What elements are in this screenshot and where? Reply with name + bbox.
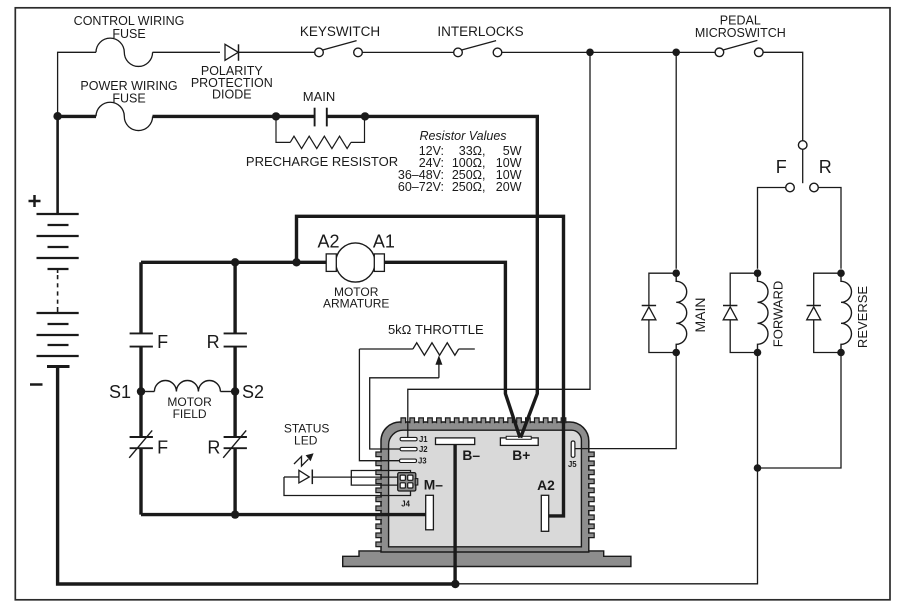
label R reverse contact [207,332,220,352]
svg-text:FIELD: FIELD [173,407,207,421]
contact R reverse (NO) [224,333,247,346]
wire REVERSE coil return [758,353,842,469]
label J5 [568,460,577,469]
terminal B- bar [436,438,475,445]
label R NC contact [207,438,220,458]
wire battery - to bottom rail [58,368,456,584]
svg-text:250Ω,: 250Ω, [452,180,486,194]
svg-text:5kΩ THROTTLE: 5kΩ THROTTLE [388,322,484,337]
label FORWARD coil [770,281,785,347]
label F selector [776,157,787,177]
label A2 terminal [537,478,555,493]
fuse POWER WIRING [56,102,315,130]
wire field R column upper [233,262,236,333]
contactor coil FORWARD with flyback diode [723,269,768,356]
wire J5 to MAIN coil [575,353,676,449]
controller body with heatsink fins and mounting flange [343,418,631,567]
svg-text:J2: J2 [419,445,428,454]
contact F forward (NO) [130,333,153,346]
wire LED cathode to J4 [312,476,397,478]
label S1 [109,382,131,402]
terminal B+ bar [500,436,538,445]
wire FORWARD coil return [757,353,759,469]
label J3 [418,457,427,466]
label B- [462,448,480,463]
label INTERLOCKS [437,24,523,39]
inductor motor field [141,381,235,392]
svg-text:R: R [819,157,832,177]
wire field R column lower [233,448,236,514]
label CONTROL WIRING FUSE [74,14,185,41]
svg-text:S1: S1 [109,382,131,402]
diode POLARITY PROTECTION [225,44,315,61]
wire R contact to REVERSE coil [818,188,841,269]
svg-text:S2: S2 [242,382,264,402]
label resistor values table [398,129,522,194]
switch INTERLOCKS [454,41,715,57]
switch KEYSWITCH [315,41,454,57]
label J1 [419,435,428,444]
svg-text:INTERLOCKS: INTERLOCKS [437,24,523,39]
svg-text:PRECHARGE RESISTOR: PRECHARGE RESISTOR [246,154,398,169]
label F NC contact [157,438,168,458]
svg-text:J5: J5 [568,460,577,469]
node keyswitch/J1 tap [586,49,594,57]
contact R NC with slash [223,430,247,457]
wire armature A1 to B+ (left V leg) [384,262,520,437]
node coil return junction [754,464,762,472]
svg-text:F: F [776,157,787,177]
wire field rail [141,261,326,264]
label 5k THROTTLE [388,322,484,337]
label S2 [242,382,264,402]
svg-text:MAIN: MAIN [692,298,708,333]
svg-text:CONTROL WIRING: CONTROL WIRING [74,14,185,28]
label KEYSWITCH [300,24,380,39]
wire control feed vertical [57,52,59,117]
label MOTOR FIELD [167,395,212,421]
wire power to B+ (right V leg) [327,116,538,437]
terminal M- bar [426,495,434,530]
node precharge right [361,112,369,120]
wire field R column mid [233,347,236,437]
label PEDAL MICROSWITCH [695,14,786,40]
label REVERSE coil [855,286,870,348]
throttle wiper arrow [435,355,442,378]
label A1 armature [373,232,395,252]
node S2 bottom junction [231,510,239,518]
svg-text:ARMATURE: ARMATURE [323,297,389,311]
wire keyswitch line to J1 [408,52,590,437]
svg-text:Resistor Values: Resistor Values [419,129,506,143]
label J4 [401,499,410,508]
wire LED anode loop to J4 [284,477,411,496]
wire MAIN coil feed [675,52,677,268]
label F forward contact [157,332,168,352]
contact F NC with slash [129,430,153,457]
wire wiper to J2 [370,378,439,449]
svg-text:LED: LED [294,434,318,448]
wire J4 jumper loop [351,471,410,486]
node armature A2 junction [292,258,300,266]
wire B- to battery return [453,444,456,584]
node field R column top [231,258,239,266]
label POLARITY PROTECTION DIODE [191,64,273,102]
wire field bottom rail to M- [141,513,426,516]
svg-text:R: R [207,332,220,352]
svg-text:60–72V:: 60–72V: [398,180,444,194]
label POWER WIRING FUSE [80,79,177,105]
fuse CONTROL WIRING [58,38,220,66]
connector J1 slot [400,437,417,440]
svg-text:B–: B– [462,448,480,463]
node main-coil tap [672,49,680,57]
label B+ [512,448,530,463]
svg-text:J4: J4 [401,499,410,508]
svg-text:B+: B+ [512,448,530,463]
svg-text:A1: A1 [373,232,395,252]
wire throttle high to J3 [359,349,399,461]
wire bottom return thin [455,468,757,584]
label J2 [419,445,428,454]
label STATUS LED [284,421,330,447]
svg-text:A2: A2 [537,478,555,493]
svg-text:MAIN: MAIN [303,89,336,104]
svg-text:MICROSWITCH: MICROSWITCH [695,26,786,40]
motor armature [326,243,384,282]
node battery-/B- junction [451,580,459,588]
wire power feed to battery + [56,116,59,214]
connector J5 slot [571,441,575,457]
label battery + [29,195,41,207]
connector J3 slot [400,459,417,462]
svg-text:F: F [157,332,168,352]
resistor 5k THROTTLE [359,343,474,355]
label A2 armature [317,232,339,252]
label MAIN contactor [303,89,336,104]
contactor coil REVERSE with flyback diode [807,269,852,356]
node S2 [231,387,239,395]
node S1 [137,387,145,395]
svg-text:DIODE: DIODE [212,88,252,102]
svg-text:R: R [207,438,220,458]
switch F/R selector [786,141,819,192]
svg-text:20W: 20W [496,180,522,194]
svg-text:REVERSE: REVERSE [855,286,870,348]
label M- [424,478,443,493]
wire top rail to A2 terminal [297,216,564,516]
svg-text:KEYSWITCH: KEYSWITCH [300,24,380,39]
connector J2 slot [400,447,417,450]
wire field F column mid [139,347,142,437]
wire field F column lower [139,448,142,514]
label PRECHARGE RESISTOR [246,154,398,169]
resistor PRECHARGE [276,116,365,148]
wire field F column upper [139,262,142,333]
svg-text:FUSE: FUSE [112,91,145,105]
svg-text:M–: M– [424,478,443,493]
switch PEDAL MICROSWITCH [715,40,803,140]
svg-text:A2: A2 [317,232,339,252]
node battery + / power junction [53,112,61,120]
svg-text:F: F [157,438,168,458]
wire F contact to FORWARD coil [758,188,786,269]
label battery - [30,383,43,386]
connector J4 4-pin [398,473,418,491]
contactor coil MAIN with flyback diode [642,269,687,356]
svg-text:FORWARD: FORWARD [770,281,785,347]
node precharge left [272,112,280,120]
contactor MAIN main-contact tips [315,108,327,127]
svg-text:J1: J1 [419,435,428,444]
svg-text:FUSE: FUSE [112,27,145,41]
label R selector [819,157,832,177]
label MOTOR ARMATURE [323,285,389,311]
LED STATUS [284,453,314,484]
label MAIN coil [692,298,708,333]
battery [37,214,79,367]
svg-text:J3: J3 [418,457,427,466]
terminal A2 bar [541,495,548,531]
